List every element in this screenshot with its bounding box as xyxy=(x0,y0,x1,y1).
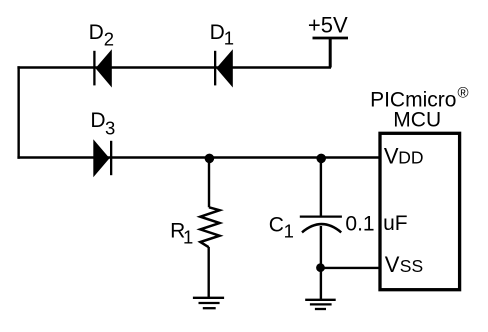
svg-text:D: D xyxy=(90,109,105,132)
svg-text:MCU: MCU xyxy=(393,108,441,131)
svg-text:1: 1 xyxy=(284,221,294,242)
svg-text:V: V xyxy=(384,143,399,168)
svg-text:0.1: 0.1 xyxy=(345,212,374,235)
svg-text:+5V: +5V xyxy=(308,13,348,38)
svg-text:2: 2 xyxy=(104,29,114,50)
svg-text:3: 3 xyxy=(105,118,115,139)
svg-text:uF: uF xyxy=(383,212,408,235)
svg-text:SS: SS xyxy=(400,256,423,276)
svg-text:DD: DD xyxy=(398,147,423,167)
svg-text:1: 1 xyxy=(183,227,193,248)
svg-text:V: V xyxy=(385,252,400,277)
svg-text:C: C xyxy=(269,214,284,237)
svg-text:D: D xyxy=(89,21,104,44)
svg-text:D: D xyxy=(210,21,225,44)
svg-text:®: ® xyxy=(458,84,469,101)
svg-text:1: 1 xyxy=(224,27,234,48)
